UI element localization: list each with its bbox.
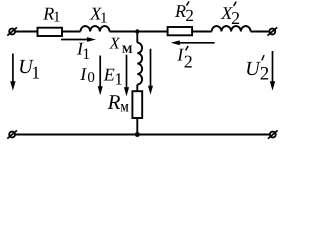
label I2'	[176, 44, 193, 71]
svg-text:1: 1	[53, 10, 61, 26]
wire top rail left segment	[15, 31, 81, 33]
voltage arrow U1	[10, 54, 15, 91]
label I0	[79, 64, 95, 86]
resistor R1	[38, 28, 63, 36]
label E1	[103, 65, 123, 89]
wire bottom rail	[15, 134, 271, 136]
wire top rail middle segment	[110, 31, 212, 33]
terminal bottom-left	[7, 130, 17, 138]
svg-text:2: 2	[231, 8, 240, 28]
inductor X1	[81, 26, 110, 31]
svg-text:2: 2	[260, 64, 270, 85]
current arrow I2'	[171, 40, 215, 45]
label R1	[42, 4, 60, 26]
resistor Rm	[132, 91, 142, 118]
wire top rail right segment	[251, 31, 270, 33]
node top junction	[135, 29, 139, 33]
resistor R2'	[168, 27, 193, 35]
inductor Xm (magnetizing reactance)	[137, 43, 142, 85]
svg-text:1: 1	[114, 70, 123, 89]
voltage arrow U2'	[270, 51, 275, 91]
terminal top-left	[7, 27, 17, 35]
label I1	[76, 39, 90, 64]
wire branch upper	[136, 32, 138, 43]
svg-text:М: М	[122, 44, 133, 56]
svg-text:1: 1	[31, 63, 40, 83]
label Xm	[109, 33, 133, 56]
label U1	[18, 56, 40, 83]
inductor X2'	[212, 26, 251, 31]
svg-text:М: М	[121, 103, 129, 115]
svg-text:U: U	[245, 58, 261, 80]
label X2'	[220, 2, 240, 28]
svg-text:R: R	[107, 90, 121, 114]
svg-text:1: 1	[100, 10, 108, 26]
svg-text:E: E	[103, 65, 115, 85]
terminal bottom-right	[268, 130, 278, 138]
svg-text:I: I	[79, 64, 87, 84]
svg-text:X: X	[109, 33, 121, 52]
svg-text:1: 1	[82, 46, 90, 63]
terminal top-right	[268, 27, 278, 35]
svg-text:0: 0	[87, 70, 95, 86]
wire branch lower	[136, 118, 138, 135]
current arrow I1	[61, 37, 96, 42]
current arrow I0	[98, 56, 103, 96]
svg-text:2: 2	[185, 6, 194, 25]
wire branch between Xm and Rm	[136, 85, 138, 92]
emf arrow E1	[124, 55, 129, 96]
branch current arrow (right of Xm)	[148, 49, 153, 95]
label X1	[89, 4, 107, 27]
node bottom junction	[135, 132, 140, 137]
svg-text:2: 2	[184, 52, 193, 72]
label U2'	[245, 55, 269, 85]
label R2'	[174, 1, 194, 25]
label Rm	[107, 90, 129, 115]
svg-text:R: R	[174, 1, 186, 21]
